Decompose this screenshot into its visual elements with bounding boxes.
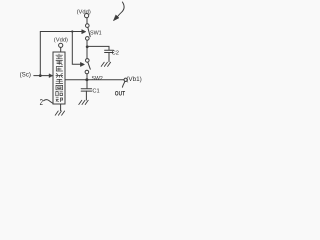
wire SW1 to node A [86, 40, 88, 58]
glyph 1 [56, 54, 63, 59]
svg-text:(Vdd): (Vdd) [54, 38, 68, 44]
svg-text:SW2: SW2 [92, 76, 103, 82]
capacitor C1 [81, 89, 91, 100]
node bus junction dot [85, 78, 88, 81]
wire SW2 to bus [86, 74, 88, 80]
wire bus to C1 [86, 80, 88, 89]
block U1 constant-voltage generator box [53, 52, 65, 104]
leader line for 2 [44, 100, 54, 104]
svg-text:(Sc): (Sc) [20, 72, 31, 79]
leader arrow top-right [114, 2, 125, 21]
wire Vdd left to box [60, 48, 62, 53]
svg-text:SW1: SW1 [90, 31, 102, 37]
control wire to SW1 [40, 32, 82, 76]
svg-text:2: 2 [40, 99, 43, 107]
glyph 7 [56, 92, 63, 96]
node A junction dot [86, 45, 89, 48]
label 2 [40, 99, 43, 107]
glyph 6 [56, 85, 63, 89]
terminal Vdd left [59, 43, 63, 47]
wire node A to C2 [87, 46, 109, 49]
control wire to SW2 [72, 32, 80, 65]
glyph 2 [56, 60, 63, 65]
ground (C1) [79, 100, 88, 104]
node Sc junction dot [39, 74, 42, 77]
glyph 3 [56, 67, 63, 72]
control tap node [71, 30, 73, 32]
terminal Vdd right [85, 14, 89, 18]
capacitor C2 [105, 50, 114, 62]
ground (box) [55, 111, 64, 115]
glyph 8 [56, 98, 63, 102]
output bus wire [65, 79, 124, 81]
wire box to ground [60, 104, 62, 111]
terminal OUT [124, 78, 127, 81]
svg-text:(Vb1): (Vb1) [126, 76, 142, 83]
wire Vdd to SW1 [86, 18, 88, 24]
glyph 5 [56, 79, 63, 83]
block U1 vertical kanji text [56, 54, 63, 102]
label OUT [115, 91, 126, 98]
leader OUT squiggle [122, 82, 124, 88]
svg-text:OUT: OUT [115, 91, 126, 98]
svg-text:C1: C1 [92, 89, 99, 95]
switch SW2 [80, 59, 90, 74]
switch SW1 [82, 24, 91, 40]
glyph 4 [56, 73, 63, 77]
wire Sc input [34, 75, 49, 77]
svg-text:C2: C2 [112, 51, 119, 57]
ground (C2) [101, 62, 110, 66]
